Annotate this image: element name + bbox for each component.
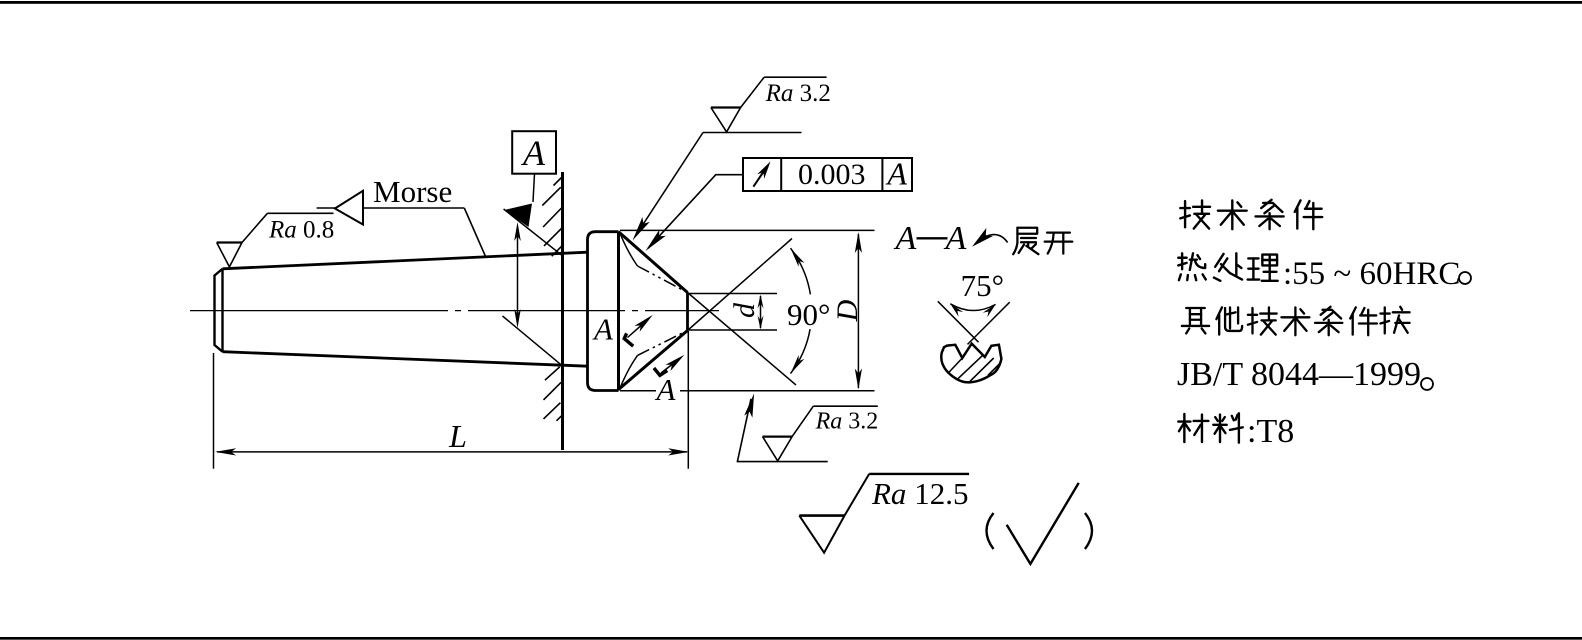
construction line extension of bottom generator <box>688 239 793 331</box>
svg-text:A: A <box>944 220 967 257</box>
section label A upper <box>592 312 614 347</box>
cutting plane thick elbow upper <box>624 333 633 346</box>
75 degree right line <box>968 302 1010 344</box>
taper symbol leader line <box>317 208 486 256</box>
datum gauge double arrow <box>514 222 521 328</box>
D dimension label <box>831 299 864 322</box>
cone bottom generator <box>619 331 688 390</box>
datum A frame box <box>512 131 556 174</box>
svg-text:d: d <box>728 302 761 318</box>
feature control frame 0.003 <box>743 158 912 191</box>
section hatching lower socket <box>544 367 562 421</box>
svg-text:Ra 3.2: Ra 3.2 <box>765 80 831 107</box>
75 degree dimension arc <box>950 304 995 318</box>
datum leader line <box>533 174 535 202</box>
unfolded section hatching <box>949 355 999 382</box>
rotation (unfolded) curved arrow <box>972 228 1008 247</box>
datum solid triangle <box>505 204 533 228</box>
Ra 3.2 lower triangle symbol <box>763 406 878 461</box>
Ra 3.2 lower value text <box>815 409 879 435</box>
75 degree left line <box>938 301 979 342</box>
svg-text:Ra 0.8: Ra 0.8 <box>268 217 334 244</box>
socket wall face line <box>561 172 564 450</box>
svg-text:Ra 12.5: Ra 12.5 <box>871 476 968 511</box>
cutting plane arrow lower <box>661 355 684 373</box>
phantom line top (ground flat edge) <box>621 235 687 293</box>
Ra 3.2 upper leader with arrow <box>633 133 802 241</box>
d bottom extension line <box>689 329 778 331</box>
D top extension line <box>620 229 875 231</box>
90 degree dimension arc <box>791 248 811 373</box>
L left extension line <box>213 353 215 469</box>
phantom line bottom (ground flat edge) <box>621 331 687 387</box>
runout tolerance leader with arrow <box>646 175 744 251</box>
svg-text:L: L <box>448 418 467 454</box>
border bottom line <box>0 637 1582 640</box>
D dimension line with arrows <box>855 232 862 390</box>
section hatching upper socket <box>542 178 563 257</box>
unfolded section outline <box>941 344 1001 383</box>
Ra 0.8 value text <box>268 217 334 244</box>
socket mouth upper break line <box>504 209 562 255</box>
svg-text:A: A <box>592 312 614 347</box>
L right extension line <box>687 331 689 469</box>
svg-text:JB/T 8044—1999: JB/T 8044—1999 <box>1177 356 1421 393</box>
svg-text::T8: :T8 <box>1247 413 1294 450</box>
centre line of axis <box>190 310 719 312</box>
section label A lower <box>655 372 677 407</box>
Ra 3.2 lower shoulder line <box>737 461 828 463</box>
border top line <box>0 1 1582 4</box>
tang end of Morse taper shank <box>215 269 223 352</box>
collar (large cylinder) of centre <box>588 232 619 391</box>
d dimension label <box>728 302 761 318</box>
tolerance value 0.003 <box>798 158 866 191</box>
Ra 12.5 triangle symbol <box>799 474 969 553</box>
tech note line3 other conditions <box>1182 307 1410 336</box>
tech note line4 JB/T standard <box>1177 356 1433 393</box>
Ra 3.2 upper value text <box>765 80 831 107</box>
d top extension line <box>689 293 778 295</box>
D bottom extension line <box>620 390 875 392</box>
svg-text:D: D <box>831 299 864 322</box>
Ra 12.5 value text <box>871 476 968 511</box>
tech note line5 material T8 <box>1178 413 1294 450</box>
Ra 3.2 upper triangle symbol <box>711 77 827 132</box>
circular runout symbol arrow <box>753 161 770 186</box>
tech note line1 jishutiaojian <box>1180 200 1322 229</box>
svg-text:0.003: 0.003 <box>798 158 866 191</box>
taper shank bottom generator <box>223 352 588 367</box>
datum A letter <box>521 133 546 173</box>
tolerance datum letter A <box>885 156 907 192</box>
Ra 3.2 lower leader with arrow <box>737 393 754 461</box>
cone top generator 60deg point <box>619 232 688 293</box>
taper shank top generator <box>223 252 588 269</box>
zhankai unfold label <box>1013 228 1072 254</box>
svg-text:75°: 75° <box>961 268 1004 303</box>
section title A-A <box>894 220 967 257</box>
svg-text:Ra 3.2: Ra 3.2 <box>815 409 879 435</box>
Morse label <box>373 174 452 209</box>
Ra 0.8 triangle symbol <box>217 213 334 267</box>
svg-text:A: A <box>655 372 677 407</box>
L dimension label <box>448 418 467 454</box>
svg-text::55 ~ 60HRC: :55 ~ 60HRC <box>1283 256 1460 292</box>
socket mouth lower break line <box>503 316 561 364</box>
L dimension line with arrows <box>215 448 689 455</box>
svg-text:A: A <box>885 156 907 192</box>
cutting plane arrow upper <box>628 315 653 338</box>
d dimension line with arrows <box>758 295 764 330</box>
cone tip flat face <box>686 293 689 331</box>
cutting plane thick elbow lower <box>654 368 667 375</box>
svg-text:A: A <box>894 220 917 257</box>
svg-text:A: A <box>521 133 546 173</box>
taper direction open triangle symbol <box>335 191 363 225</box>
75 degree label <box>961 268 1004 303</box>
other-roughness parentheses with check mark <box>987 483 1093 564</box>
svg-text:Morse: Morse <box>373 174 452 209</box>
construction line extension of top generator <box>688 293 797 386</box>
90 degree label <box>787 297 830 332</box>
svg-text:90°: 90° <box>787 297 830 332</box>
tech note line2 heat treatment <box>1178 253 1471 292</box>
